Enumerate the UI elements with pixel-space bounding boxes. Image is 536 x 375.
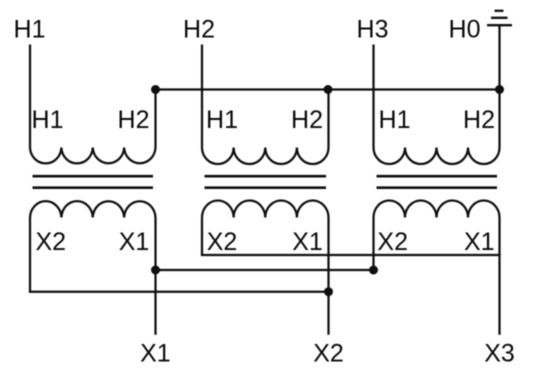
wire H0 ground lead <box>498 25 500 89</box>
svg-text:H1: H1 <box>32 106 64 134</box>
svg-text:H2: H2 <box>183 16 215 44</box>
transformer T1 core <box>33 176 154 188</box>
svg-text:H3: H3 <box>357 16 389 44</box>
junction dot at T3.X2 on delta link <box>369 266 378 275</box>
transformer T3 secondary winding X2-X1 with leads <box>374 201 500 335</box>
svg-text:X1: X1 <box>464 228 495 256</box>
svg-text:H0: H0 <box>449 16 481 44</box>
svg-text:H2: H2 <box>463 106 495 134</box>
transformer T2 core <box>205 176 327 188</box>
junction dot at T1.X1 on delta link <box>151 266 160 275</box>
transformer T2 primary winding H1-H2 with leads <box>202 45 329 165</box>
transformer T3 primary winding H1-H2 with leads <box>374 45 500 165</box>
svg-text:H1: H1 <box>206 106 238 134</box>
svg-text:X2: X2 <box>207 228 238 256</box>
ground symbol at H0 <box>487 11 512 25</box>
svg-text:X3: X3 <box>484 340 515 368</box>
wire delta link T2.X2 to T3.X1 <box>202 254 500 256</box>
svg-text:H1: H1 <box>379 106 411 134</box>
wire H bus (neutral tie across H2 sides) <box>156 88 500 90</box>
svg-text:H2: H2 <box>118 106 150 134</box>
junction dot at T2.H2 on bus <box>324 85 333 94</box>
svg-text:X1: X1 <box>292 228 323 256</box>
transformer T3 core <box>377 176 498 188</box>
svg-text:X2: X2 <box>313 340 344 368</box>
junction dot at T2.X1 on delta link <box>324 287 333 296</box>
transformer T1 primary winding H1-H2 with leads <box>30 45 156 164</box>
junction dot at H0 on bus <box>495 85 504 94</box>
junction dot at T1.H2 on bus <box>151 85 160 94</box>
wire delta link T1.X1 to T3.X2 <box>156 269 374 271</box>
transformer T2 secondary winding X2-X1 with leads <box>202 200 329 334</box>
svg-text:X2: X2 <box>36 228 67 256</box>
svg-text:X2: X2 <box>377 228 408 256</box>
transformer T1 secondary winding X2-X1 with leads <box>30 201 156 335</box>
wire delta link T1.X2 to T2.X1 <box>30 291 329 293</box>
svg-text:X1: X1 <box>119 228 150 256</box>
svg-text:H2: H2 <box>291 106 323 134</box>
svg-text:H1: H1 <box>14 16 46 44</box>
svg-text:X1: X1 <box>140 340 171 368</box>
